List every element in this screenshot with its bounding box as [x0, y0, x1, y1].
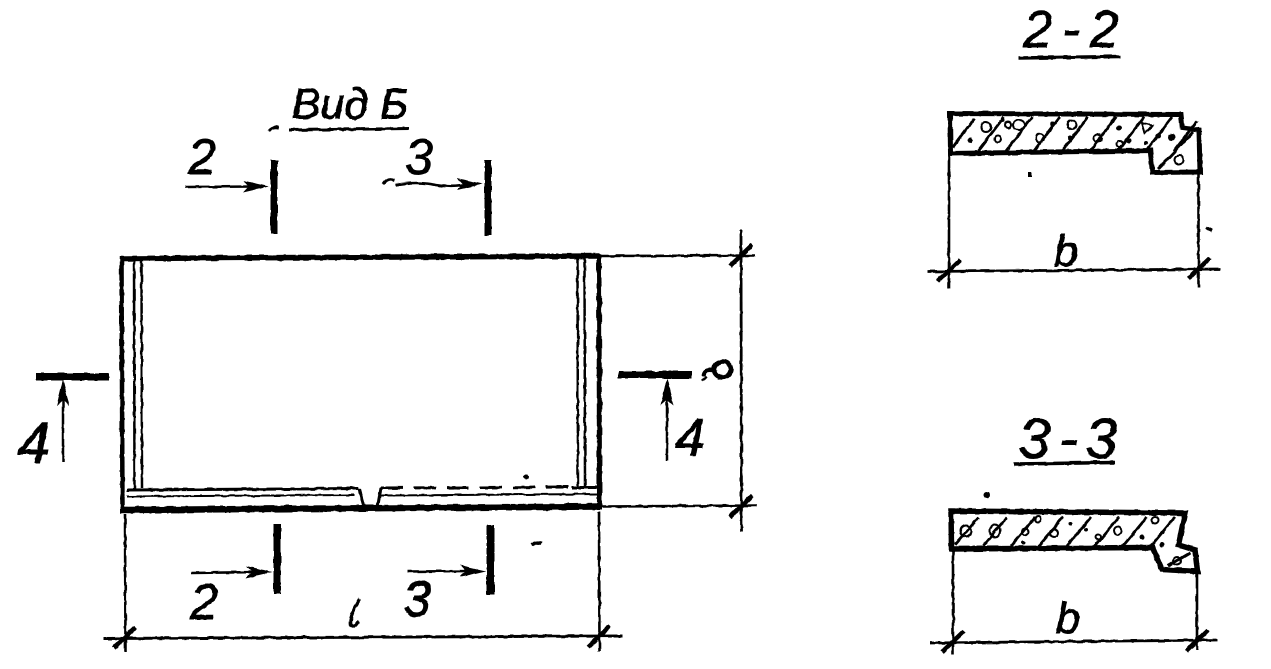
svg-text:b: b [1056, 594, 1080, 643]
svg-text:2: 2 [187, 129, 216, 185]
svg-text:2: 2 [189, 574, 218, 630]
stray speck above dashed line [524, 475, 529, 480]
title Вид Б [269, 81, 409, 132]
joint notch left diagonal [359, 489, 364, 508]
bottom strip top line right end solid [572, 486, 597, 489]
inner vertical lines left [134, 260, 142, 489]
section 2-2 aggregate [981, 120, 1184, 165]
section 3-3 extension right [1196, 574, 1199, 650]
svg-text:4: 4 [18, 411, 50, 476]
svg-text:3: 3 [403, 571, 431, 627]
dimension l tick right [588, 626, 610, 647]
dimension b right tick bottom [730, 496, 752, 517]
section 2-2 extension right [1197, 174, 1200, 288]
dimension b right label [702, 362, 731, 382]
section 3-3 aggregate [961, 516, 1182, 565]
svg-text:2-2: 2-2 [1022, 1, 1128, 59]
section mark 4 right [618, 371, 705, 468]
section 2-2 extension left [948, 156, 951, 288]
svg-text:4: 4 [675, 409, 704, 468]
section 3-3 tick right [1186, 630, 1208, 651]
section mark 3 bottom [403, 525, 542, 627]
dimension b right line [740, 230, 743, 532]
section 3-3 outline [951, 511, 1198, 572]
bottom strip top line right dashed [381, 487, 570, 488]
main view outer rectangle [120, 254, 601, 512]
section 2-2 hatching [953, 117, 1197, 169]
section mark 3 top [383, 129, 492, 235]
bottom strip middle line right [381, 494, 597, 496]
section mark 4 left [18, 373, 109, 476]
dimension l line [104, 636, 622, 639]
section mark 2 top [185, 129, 278, 234]
section 3-3 hatching [955, 517, 1190, 566]
section 2-2 tick left [938, 260, 960, 281]
section 3-3 dot [984, 492, 990, 498]
section 3-3 tick left [942, 631, 964, 652]
section 2-2 title [1019, 1, 1129, 59]
dimension l extension left [124, 514, 127, 652]
section 2-2 speck [1206, 228, 1212, 231]
bottom strip middle line left [127, 495, 354, 497]
svg-text:b: b [1054, 227, 1078, 276]
section 3-3 dimension line [930, 640, 1218, 643]
bottom strip top line left solid [127, 489, 359, 491]
dimension l label [350, 599, 359, 627]
dimension b right extension bottom [601, 506, 757, 507]
dimension b right tick top [730, 245, 752, 266]
joint notch right diagonal [378, 488, 382, 508]
section 3-3 title [1014, 407, 1125, 471]
dimension l extension right [598, 512, 601, 651]
svg-text:3: 3 [405, 129, 433, 185]
svg-text:Вид Б: Вид Б [292, 81, 408, 129]
section 3-3 extension left [952, 551, 955, 655]
section mark 2 bottom [189, 524, 281, 630]
section 2-2 tick right [1188, 258, 1210, 279]
dimension b right extension top [601, 254, 755, 257]
section 2-2 dimension line [927, 269, 1220, 272]
inner vertical lines right [578, 258, 586, 488]
dimension l tick left [114, 627, 136, 648]
section 2-2 outline [950, 114, 1200, 173]
